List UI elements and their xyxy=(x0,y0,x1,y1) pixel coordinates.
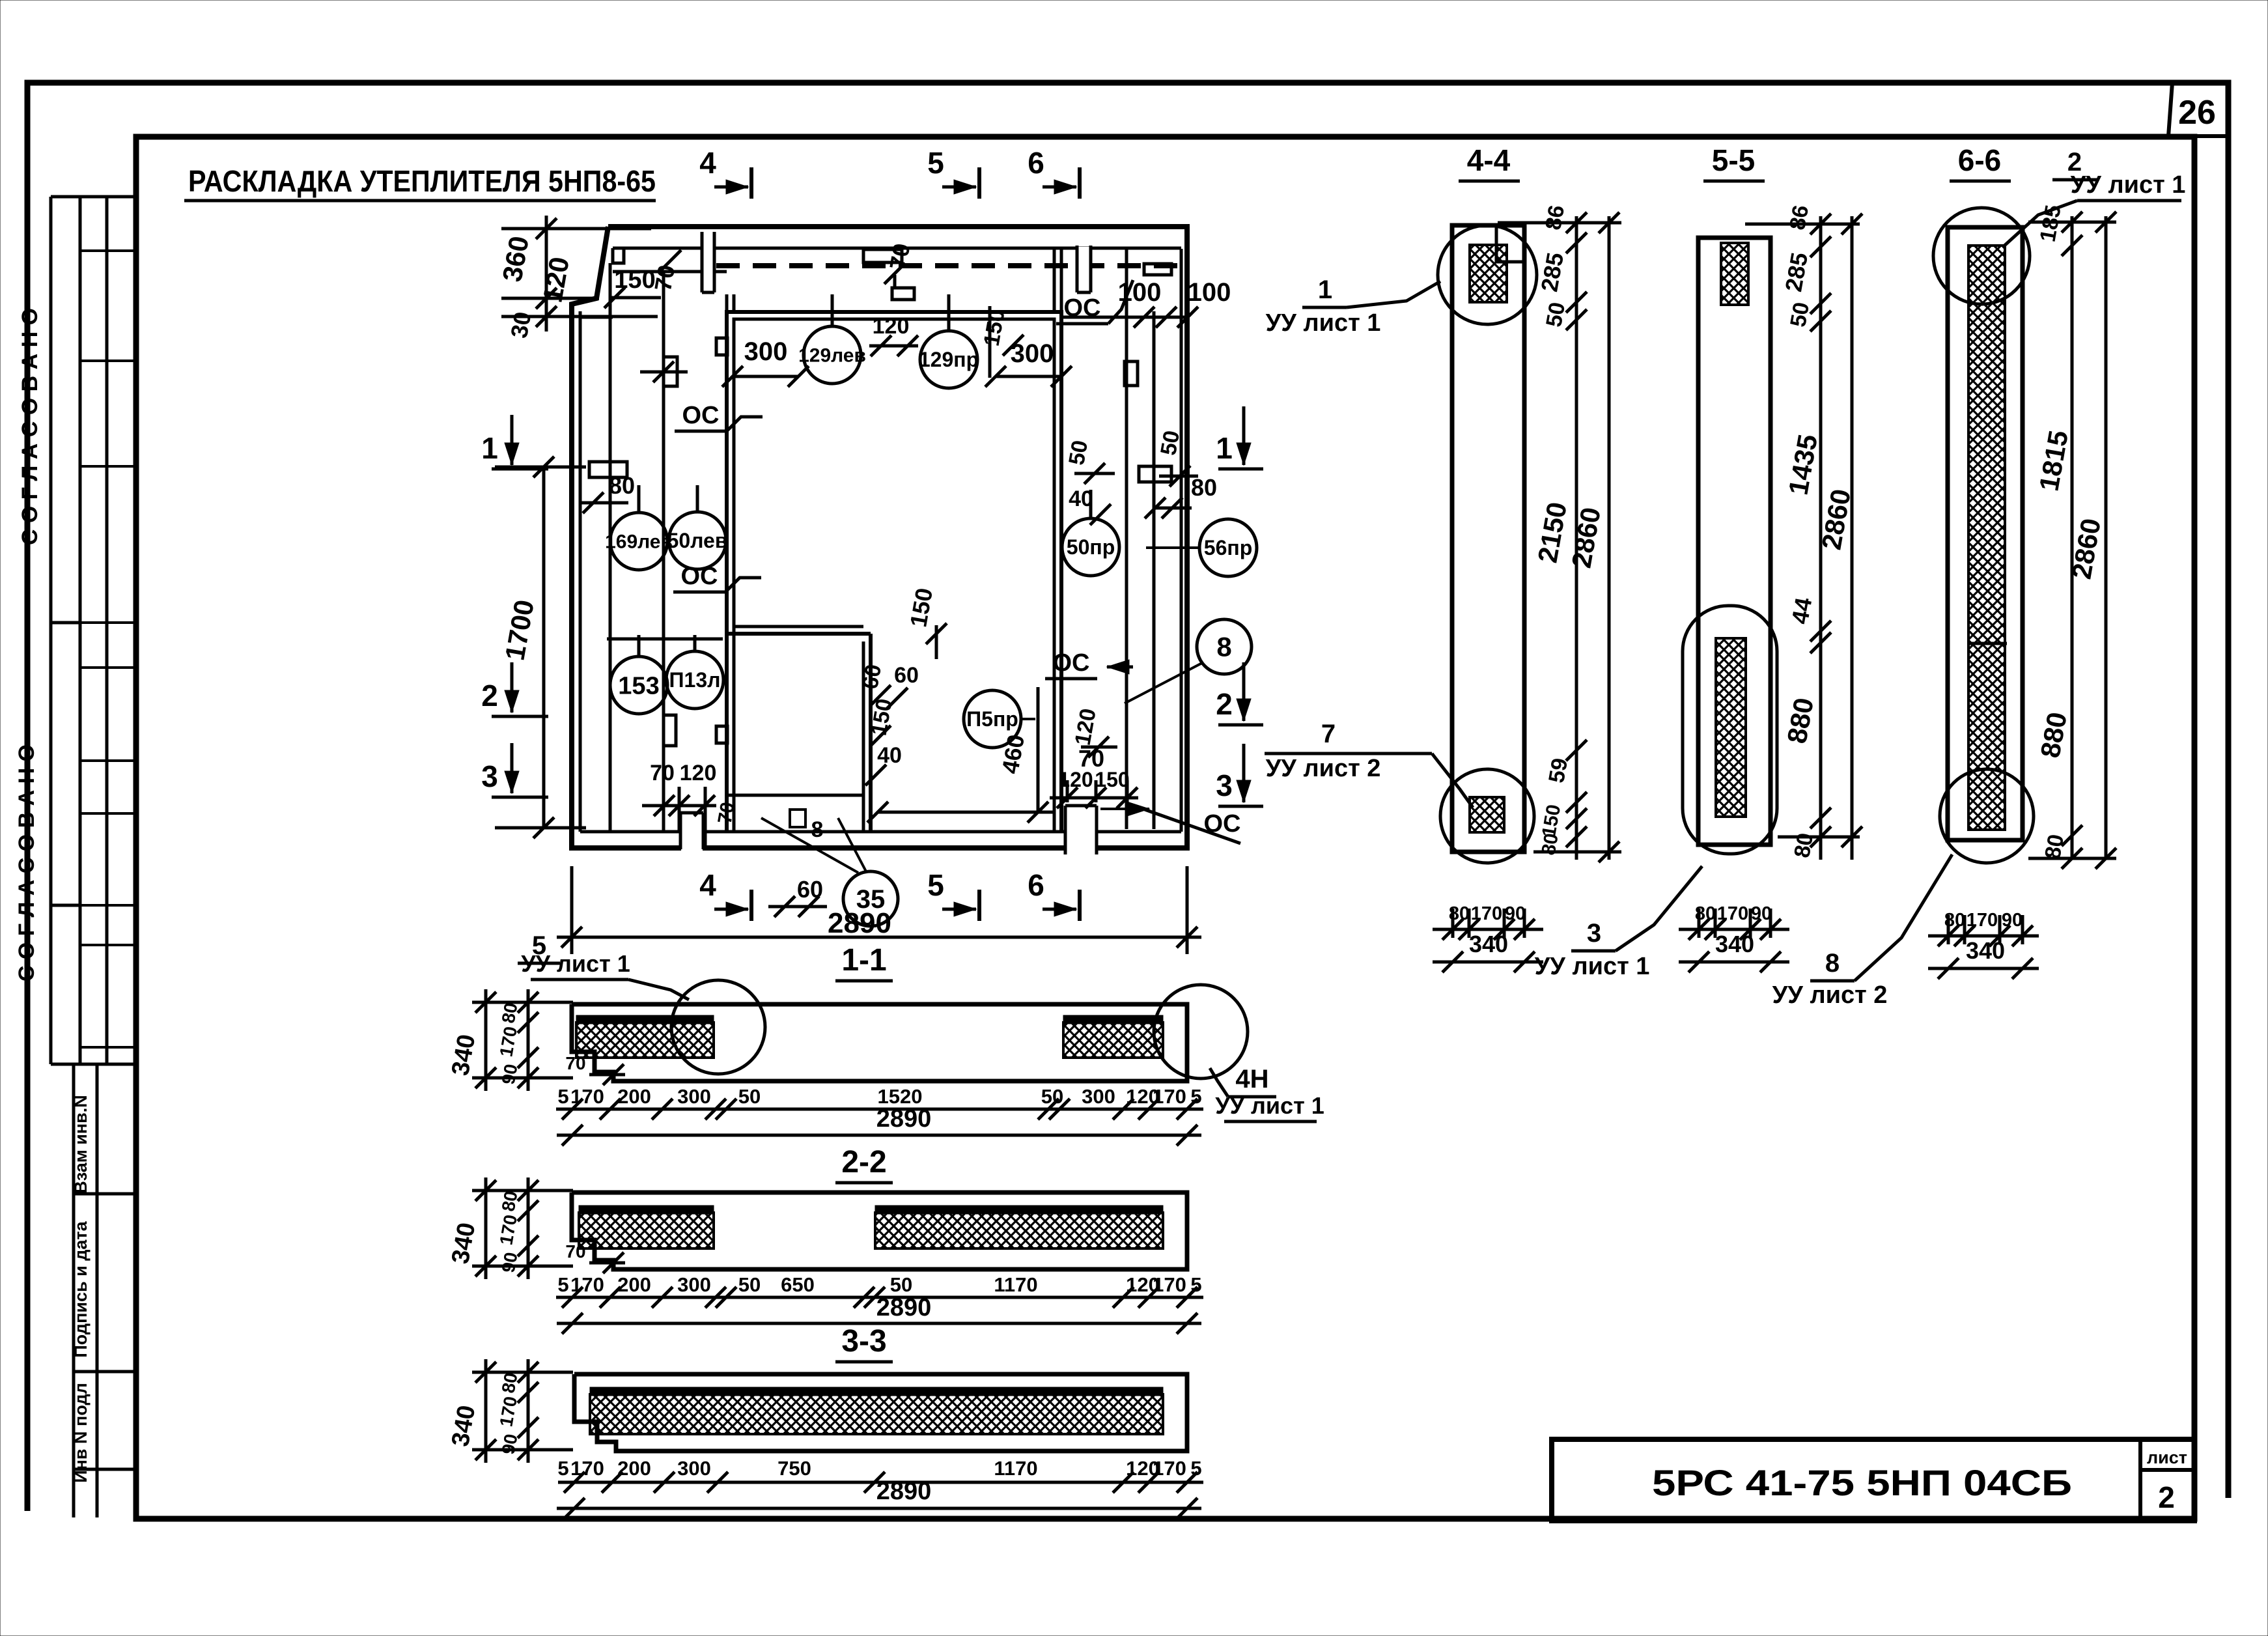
bottom notch L xyxy=(679,813,682,849)
svg-text:86: 86 xyxy=(1541,203,1569,232)
plate left wall xyxy=(589,462,627,477)
svg-text:2890: 2890 xyxy=(828,907,891,939)
svg-text:80: 80 xyxy=(1449,903,1470,924)
label 129лев xyxy=(804,326,861,384)
svg-text:44: 44 xyxy=(1786,596,1817,627)
svg-text:50: 50 xyxy=(1785,300,1814,329)
svg-text:4: 4 xyxy=(699,146,716,180)
section 5-5 body xyxy=(1698,238,1771,845)
svg-text:8: 8 xyxy=(1825,949,1840,978)
strip 937 xyxy=(609,263,612,832)
tiny square bottom xyxy=(790,810,805,827)
svg-text:УУ лист 1: УУ лист 1 xyxy=(521,950,630,977)
left vertical dim 360/120/30 xyxy=(545,216,548,331)
svg-text:80: 80 xyxy=(1537,832,1562,857)
svg-text:5: 5 xyxy=(927,868,944,902)
strip 1772 xyxy=(1153,311,1156,829)
leader 56pr xyxy=(1146,546,1199,549)
label 56пр xyxy=(1199,519,1257,576)
svg-text:1170: 1170 xyxy=(994,1273,1037,1296)
left inner ledge xyxy=(580,316,613,319)
svg-text:86: 86 xyxy=(1785,203,1813,232)
svg-text:90: 90 xyxy=(1751,903,1772,924)
label 129пр xyxy=(920,331,977,388)
svg-text:750: 750 xyxy=(777,1457,811,1480)
svg-text:лист: лист xyxy=(2147,1448,2187,1467)
svg-text:6: 6 xyxy=(1028,146,1044,180)
top band notches xyxy=(703,233,714,291)
bump on 1116 upper xyxy=(716,338,727,355)
svg-text:60: 60 xyxy=(797,876,823,903)
svg-text:100: 100 xyxy=(1188,278,1231,307)
svg-text:80: 80 xyxy=(1695,903,1716,924)
svg-text:50: 50 xyxy=(890,1273,912,1296)
label 169лев xyxy=(610,513,667,570)
svg-text:650: 650 xyxy=(781,1273,815,1296)
strip 1019 xyxy=(662,271,665,832)
svg-text:1170: 1170 xyxy=(994,1457,1037,1480)
svg-text:УУ лист 2: УУ лист 2 xyxy=(1772,981,1888,1009)
svg-text:5: 5 xyxy=(927,146,944,180)
svg-text:26: 26 xyxy=(2178,94,2216,132)
sidebar stamp table xyxy=(49,197,53,1064)
step left outer xyxy=(869,634,873,832)
svg-text:129пр: 129пр xyxy=(919,348,979,371)
svg-text:2-2: 2-2 xyxy=(841,1145,886,1179)
svg-text:170: 170 xyxy=(1153,1273,1186,1296)
stick P5pr xyxy=(1021,718,1035,720)
svg-text:50: 50 xyxy=(1541,300,1570,329)
bump on 1019 xyxy=(664,357,677,386)
svg-text:1-1: 1-1 xyxy=(841,943,886,978)
4-4 bottom chain xyxy=(1451,909,1455,938)
svg-text:300: 300 xyxy=(677,1457,711,1480)
svg-text:5: 5 xyxy=(1190,1457,1201,1480)
svg-text:8: 8 xyxy=(811,817,824,842)
svg-text:60: 60 xyxy=(894,663,919,688)
svg-text:70: 70 xyxy=(565,1241,585,1262)
svg-text:3: 3 xyxy=(481,759,498,793)
svg-text:6: 6 xyxy=(1028,868,1044,902)
lower strip ledge xyxy=(727,794,863,797)
1-1 insulation right xyxy=(1063,1022,1163,1058)
4-4 top insulation xyxy=(1470,245,1507,302)
label 153 xyxy=(610,656,667,714)
detail outline 5-5 xyxy=(1683,606,1777,854)
top band second line xyxy=(613,270,727,274)
opening edge ext R xyxy=(1060,249,1063,312)
notch L left xyxy=(701,232,704,292)
bump on 1019 lower xyxy=(664,715,676,746)
bottom band notches xyxy=(681,815,703,852)
strip 1730 xyxy=(1125,249,1128,829)
detail circle 1-1 right xyxy=(1154,985,1248,1079)
bump on 1730 xyxy=(1125,361,1138,386)
svg-text:40: 40 xyxy=(877,743,902,768)
svg-text:30: 30 xyxy=(505,310,536,341)
label 8 xyxy=(1197,619,1252,674)
page number box 26 xyxy=(2168,83,2172,136)
svg-text:П5пр: П5пр xyxy=(966,707,1018,731)
horizontal tick line on strip xyxy=(640,371,688,374)
svg-text:170: 170 xyxy=(1967,910,1998,931)
plan outer wall xyxy=(572,227,1187,848)
section 6-6 body xyxy=(1948,227,2023,840)
svg-text:УУ лист 2: УУ лист 2 xyxy=(1266,755,1381,782)
svg-text:80: 80 xyxy=(2040,832,2069,861)
svg-text:80: 80 xyxy=(1191,474,1217,501)
svg-text:60: 60 xyxy=(858,662,886,691)
4-4 dim lines xyxy=(1575,216,1578,860)
bottom notch R xyxy=(1064,806,1067,854)
notch R left xyxy=(1076,246,1079,292)
svg-text:5: 5 xyxy=(1190,1273,1201,1296)
svg-text:4-4: 4-4 xyxy=(1467,143,1511,177)
svg-text:70: 70 xyxy=(650,761,675,785)
3-3 panel outline xyxy=(574,1374,1187,1451)
detail circle 4-4 bottom xyxy=(1440,769,1534,863)
svg-text:56пр: 56пр xyxy=(1204,536,1252,559)
svg-text:Инв N подл: Инв N подл xyxy=(71,1383,91,1483)
svg-text:80: 80 xyxy=(1944,910,1965,931)
svg-text:200: 200 xyxy=(617,1273,651,1296)
opening inner xyxy=(734,319,1054,832)
svg-text:169лев: 169лев xyxy=(605,531,673,553)
svg-text:2: 2 xyxy=(481,679,498,712)
6-6 bottom chain xyxy=(1947,915,1950,944)
3-3 insulation xyxy=(590,1394,1163,1434)
step left inner xyxy=(862,642,865,832)
leader 35a xyxy=(761,818,858,873)
svg-text:С О Г Л А С О В А Н О: С О Г Л А С О В А Н О xyxy=(18,308,42,545)
svg-text:50: 50 xyxy=(738,1273,761,1296)
svg-text:80: 80 xyxy=(498,1001,522,1024)
svg-text:40: 40 xyxy=(1069,487,1093,511)
small notch top-left xyxy=(613,248,624,263)
opening outer xyxy=(727,312,1061,832)
leader 35b xyxy=(838,818,866,871)
step ledge inner xyxy=(734,625,863,628)
svg-text:90: 90 xyxy=(498,1062,522,1086)
svg-text:8: 8 xyxy=(1216,632,1231,662)
svg-text:С О Г Л А С О В А Н О: С О Г Л А С О В А Н О xyxy=(14,744,39,981)
svg-text:50: 50 xyxy=(738,1085,761,1108)
sheet boundary line xyxy=(607,638,723,641)
4-4 bottom insulation xyxy=(1470,797,1504,832)
svg-text:170: 170 xyxy=(570,1273,604,1296)
left wall inner line xyxy=(579,311,582,832)
svg-text:90: 90 xyxy=(498,1250,522,1274)
svg-text:129лев: 129лев xyxy=(798,345,866,367)
svg-text:80: 80 xyxy=(498,1189,522,1213)
svg-text:340: 340 xyxy=(1966,937,2005,964)
svg-text:50: 50 xyxy=(1156,429,1184,457)
top band bottom xyxy=(613,247,1181,250)
svg-text:2890: 2890 xyxy=(876,1294,932,1321)
svg-text:170: 170 xyxy=(1153,1085,1186,1108)
svg-text:1520: 1520 xyxy=(878,1085,923,1108)
6-6 insulation strip xyxy=(1968,246,2005,830)
detail circle 4-4 top xyxy=(1438,225,1537,324)
step ledge outer xyxy=(727,632,871,636)
svg-text:90: 90 xyxy=(498,1432,522,1456)
svg-text:50: 50 xyxy=(1041,1085,1063,1108)
svg-text:ОС: ОС xyxy=(681,563,718,590)
svg-text:170: 170 xyxy=(1153,1457,1186,1480)
svg-text:120: 120 xyxy=(680,761,717,785)
svg-text:90: 90 xyxy=(2002,910,2023,931)
svg-text:300: 300 xyxy=(677,1085,711,1108)
svg-text:50: 50 xyxy=(1064,438,1093,467)
opening edge ext L xyxy=(725,294,729,312)
svg-text:5-5: 5-5 xyxy=(1712,143,1755,177)
svg-text:3-3: 3-3 xyxy=(841,1324,886,1359)
5-5 mid insulation xyxy=(1716,638,1746,817)
svg-text:340: 340 xyxy=(1715,931,1754,957)
svg-text:80: 80 xyxy=(1789,831,1818,860)
svg-text:УУ лист 1: УУ лист 1 xyxy=(2071,171,2186,199)
svg-text:50пр: 50пр xyxy=(1067,535,1115,559)
bottom dim 2890 xyxy=(557,936,1201,939)
svg-text:УУ лист 1: УУ лист 1 xyxy=(1215,1092,1324,1119)
svg-text:70: 70 xyxy=(714,800,738,826)
svg-text:2890: 2890 xyxy=(876,1105,932,1133)
plate right strip xyxy=(1139,466,1171,482)
svg-text:90: 90 xyxy=(1505,903,1526,924)
dashed line xyxy=(716,263,1179,268)
bottom inner line xyxy=(580,830,1181,834)
svg-text:59: 59 xyxy=(1544,756,1573,785)
svg-text:1: 1 xyxy=(481,431,498,465)
svg-text:7: 7 xyxy=(1321,720,1336,748)
svg-text:170: 170 xyxy=(1717,903,1748,924)
plate top dashed xyxy=(863,249,902,262)
svg-text:4Н: 4Н xyxy=(1235,1065,1268,1093)
svg-text:150: 150 xyxy=(1095,768,1129,791)
2-2 panel outline xyxy=(572,1192,1187,1269)
svg-text:УУ лист 1: УУ лист 1 xyxy=(1266,309,1381,337)
svg-text:170: 170 xyxy=(570,1085,604,1108)
inner frame xyxy=(136,137,2194,1519)
2-2 insulation left xyxy=(579,1213,714,1248)
title block xyxy=(1552,1439,2194,1521)
svg-text:6-6: 6-6 xyxy=(1958,143,2001,177)
svg-text:1: 1 xyxy=(1318,275,1332,304)
right wall inner line xyxy=(1180,249,1183,832)
section 4-4 body xyxy=(1452,225,1524,852)
svg-text:300: 300 xyxy=(744,337,788,366)
svg-text:П13л: П13л xyxy=(669,668,721,692)
svg-text:300: 300 xyxy=(1082,1085,1115,1108)
bump on 1116 lower xyxy=(716,726,727,743)
svg-text:2: 2 xyxy=(1216,687,1233,721)
4-4 top step v xyxy=(1495,227,1498,262)
detail circle 1-1 left xyxy=(671,980,765,1074)
5-5 top insulation xyxy=(1721,243,1748,305)
svg-text:1: 1 xyxy=(1216,431,1233,465)
label 35 xyxy=(843,871,898,926)
svg-text:50лев: 50лев xyxy=(667,529,728,552)
svg-text:ОС: ОС xyxy=(1053,649,1090,677)
svg-text:РАСКЛАДКА УТЕПЛИТЕЛЯ 5НП8-65: РАСКЛАДКА УТЕПЛИТЕЛЯ 5НП8-65 xyxy=(188,164,656,198)
plate top right xyxy=(1144,264,1171,275)
5-5 bottom chain xyxy=(1698,909,1701,938)
svg-text:3: 3 xyxy=(1587,919,1601,948)
svg-text:Подпись и дата: Подпись и дата xyxy=(71,1220,91,1357)
6-6 dim lines xyxy=(2071,216,2074,860)
2-2 insulation right xyxy=(875,1213,1163,1248)
svg-text:5: 5 xyxy=(557,1273,568,1296)
svg-text:5РС 41-75 5НП 04СБ: 5РС 41-75 5НП 04СБ xyxy=(1652,1462,2072,1503)
svg-text:170: 170 xyxy=(570,1457,604,1480)
5-5 dim lines xyxy=(1819,216,1823,860)
leader 8 xyxy=(1125,663,1202,703)
svg-text:ОС: ОС xyxy=(1064,294,1101,322)
svg-text:2890: 2890 xyxy=(876,1478,932,1505)
left dim 1700 xyxy=(542,467,546,828)
svg-text:200: 200 xyxy=(617,1457,651,1480)
svg-text:УУ лист 1: УУ лист 1 xyxy=(1535,953,1650,980)
svg-text:70: 70 xyxy=(565,1053,585,1073)
svg-text:ОС: ОС xyxy=(682,402,720,429)
svg-text:5: 5 xyxy=(557,1457,568,1480)
svg-text:3: 3 xyxy=(1216,769,1233,802)
svg-text:5: 5 xyxy=(557,1085,568,1108)
4-4 top step h xyxy=(1496,261,1524,264)
label 50пр xyxy=(1062,518,1119,576)
svg-text:153: 153 xyxy=(618,672,659,699)
svg-text:80: 80 xyxy=(609,472,635,499)
svg-text:340: 340 xyxy=(1469,931,1508,957)
1-1 insulation left xyxy=(576,1022,714,1058)
svg-text:4: 4 xyxy=(699,868,716,902)
1-1 panel outline xyxy=(572,1004,1187,1081)
svg-text:200: 200 xyxy=(617,1085,651,1108)
label П13л xyxy=(666,651,723,709)
svg-text:300: 300 xyxy=(677,1273,711,1296)
label sticks xyxy=(637,485,641,513)
plate top center xyxy=(892,288,914,300)
svg-text:2: 2 xyxy=(2158,1480,2175,1514)
label П5пр xyxy=(964,690,1021,748)
detail circle 6-6 bottom xyxy=(1940,769,2034,863)
svg-text:80: 80 xyxy=(498,1371,522,1394)
svg-text:170: 170 xyxy=(1471,903,1502,924)
svg-text:5: 5 xyxy=(1190,1085,1201,1108)
label 50лев xyxy=(669,512,726,569)
svg-text:Взам инв.N: Взам инв.N xyxy=(71,1095,91,1194)
detail circle 6-6 top xyxy=(1933,208,2030,304)
